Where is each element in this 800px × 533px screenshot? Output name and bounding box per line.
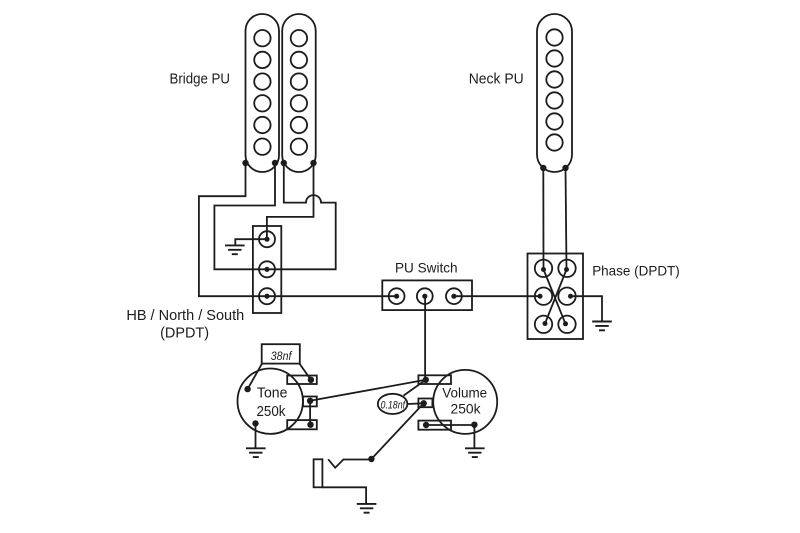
svg-text:Bridge PU: Bridge PU [170, 71, 231, 88]
svg-text:PU Switch: PU Switch [395, 260, 458, 276]
svg-text:Neck PU: Neck PU [469, 71, 524, 88]
svg-text:38nf: 38nf [271, 349, 293, 363]
svg-text:HB / North / South: HB / North / South [126, 308, 244, 324]
svg-text:0.18nf: 0.18nf [381, 400, 406, 412]
svg-text:Tone: Tone [257, 386, 288, 402]
svg-text:Volume: Volume [442, 384, 487, 400]
svg-text:Phase (DPDT): Phase (DPDT) [592, 262, 680, 278]
svg-text:250k: 250k [451, 401, 482, 417]
svg-text:(DPDT): (DPDT) [160, 325, 209, 341]
svg-text:250k: 250k [257, 404, 287, 420]
